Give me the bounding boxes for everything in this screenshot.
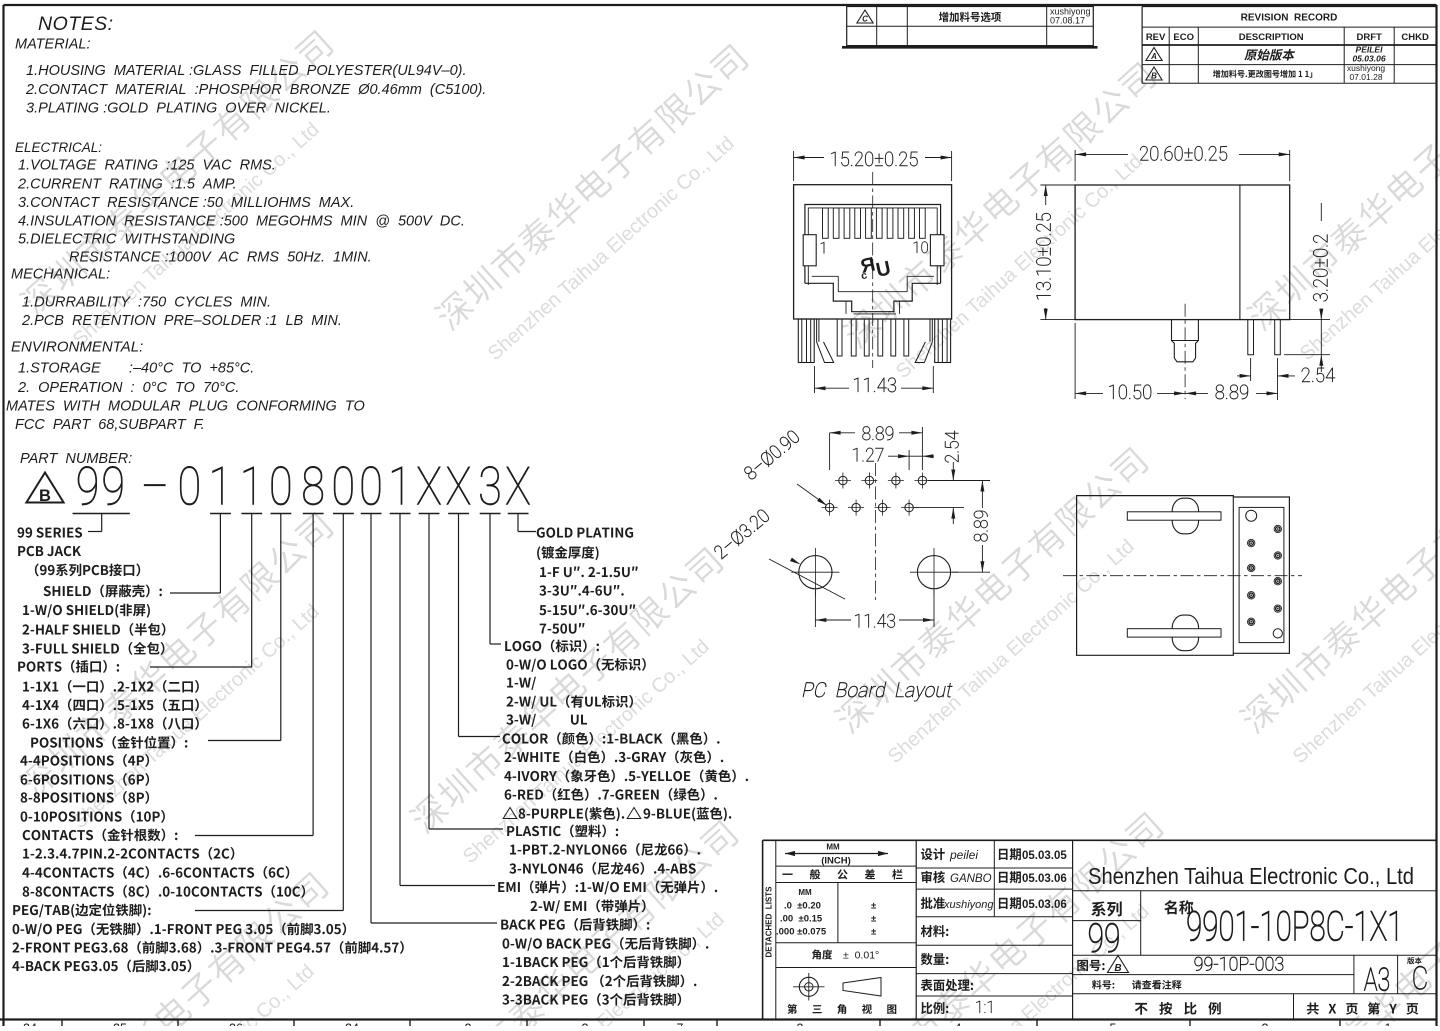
svg-text:2.PCB RETENTION PRE–SOLDER :: 2.PCB RETENTION PRE–SOLDER :1 LB MIN. — [21, 313, 342, 329]
front view body outline — [794, 185, 952, 319]
watermark tiles — [16, 28, 371, 360]
svg-text:MM: MM — [826, 843, 840, 852]
svg-text:DRFT: DRFT — [1357, 32, 1383, 43]
revision row B — [1146, 67, 1162, 80]
pcb leader 8-Ø0.90 — [743, 429, 801, 481]
svg-text:±: ± — [871, 901, 876, 912]
bottom view peg ovals and bars — [1172, 498, 1198, 534]
side view: dimension 20.60±0.25 — [1074, 150, 1076, 181]
detached lists column — [775, 840, 777, 1019]
svg-text:2.CONTACT MATERIAL :PHOSPHOR: 2.CONTACT MATERIAL :PHOSPHOR BRONZE Ø0.4… — [25, 82, 486, 98]
cUL logo — [857, 251, 893, 286]
svg-text:05.03.06: 05.03.06 — [1022, 899, 1067, 911]
svg-text:CHKD: CHKD — [1401, 32, 1429, 43]
svg-text:ENVIRONMENTAL:: ENVIRONMENTAL: — [11, 339, 143, 356]
svg-text:U: U — [874, 257, 893, 282]
side view panel face line — [1239, 185, 1241, 320]
socket contact comb teeth — [823, 208, 829, 238]
title block outer borders — [763, 839, 1437, 841]
side view bottom peg — [1172, 320, 1199, 362]
svg-text:05.03.05: 05.03.05 — [1022, 850, 1067, 862]
svg-text:±: ± — [871, 927, 876, 938]
svg-text:.00 ±0.15: .00 ±0.15 — [780, 914, 823, 925]
svg-text:DETACHED LISTS: DETACHED LISTS — [765, 886, 774, 958]
part number field connector lines — [219, 514, 221, 594]
front view shield legs left — [798, 319, 814, 363]
svg-text:C: C — [862, 15, 868, 24]
title block middle column rows — [993, 840, 995, 917]
front view vertical centerline — [872, 172, 874, 368]
svg-text:3.PLATING :GOLD PLATING OVER: 3.PLATING :GOLD PLATING OVER NICKEL. — [26, 101, 331, 117]
svg-text:1.HOUSING MATERIAL :GLASS FI: 1.HOUSING MATERIAL :GLASS FILLED POLYEST… — [26, 63, 467, 79]
svg-text:MATERIAL:: MATERIAL: — [15, 37, 90, 53]
pcb dimension 1.27 — [908, 450, 910, 470]
svg-text:05.03.06: 05.03.06 — [1352, 54, 1385, 64]
svg-text:07.01.28: 07.01.28 — [1349, 72, 1382, 82]
revision row A — [1146, 48, 1162, 61]
99 SERIES connector — [101, 514, 103, 532]
svg-text:B: B — [1114, 963, 1121, 974]
side view pins — [1248, 320, 1254, 355]
svg-text:B: B — [1151, 72, 1157, 81]
svg-text:RESISTANCE :1000V AC RMS 50: RESISTANCE :1000V AC RMS 50Hz. 1MIN. — [69, 250, 372, 266]
pcb leader 2-Ø3.20 — [713, 508, 771, 560]
side view dimension 3.20±0.2 — [1283, 319, 1330, 321]
front view socket opening — [805, 205, 941, 284]
front view shield legs right — [935, 319, 951, 363]
side view dimensions 10.50 / 8.89 — [1074, 323, 1076, 399]
svg-text:2.CURRENT RATING :1.5 AMP.: 2.CURRENT RATING :1.5 AMP. — [17, 177, 237, 193]
bottom view centerline — [1063, 575, 1302, 577]
svg-text:FCC PART 68,SUBPART F.: FCC PART 68,SUBPART F. — [15, 417, 205, 433]
svg-text:2: 2 — [465, 1022, 472, 1027]
pin number 1 — [821, 242, 824, 253]
svg-text:5.DIELECTRIC WITHSTANDING: 5.DIELECTRIC WITHSTANDING — [18, 232, 235, 248]
svg-text:5: 5 — [1110, 1022, 1117, 1027]
pin number 10 — [914, 241, 928, 253]
drawing number row — [1077, 960, 1104, 971]
svg-text:24: 24 — [23, 1022, 37, 1027]
side view body outline — [1075, 185, 1290, 320]
svg-text:.0 ±0.20: .0 ±0.20 — [784, 901, 821, 912]
pcb layout centerline — [875, 463, 877, 600]
pcb small holes 8-Ø0.90 — [839, 476, 847, 484]
svg-text:REV: REV — [1146, 32, 1166, 43]
svg-text:B: B — [39, 487, 51, 505]
drawing frame border — [4, 4, 1437, 6]
svg-text:Shenzhen Taihua Electronic Co.: Shenzhen Taihua Electronic Co., Ltd — [1088, 863, 1414, 889]
svg-text:.000 ±0.075: .000 ±0.075 — [776, 927, 827, 938]
bottom view pin field rect — [1239, 507, 1284, 642]
revision triangle B next to part number — [26, 473, 63, 503]
front view: dimension 15.20±0.25 — [793, 151, 795, 181]
pcb dimension 8.89 top — [829, 433, 831, 470]
svg-text:±: ± — [871, 914, 876, 925]
socket side latch right — [930, 235, 944, 266]
pcb dimension 11.43 — [814, 590, 816, 627]
series / name cells — [1073, 890, 1437, 892]
pcb big holes 2-Ø3.20 — [799, 556, 832, 589]
svg-text:2. OPERATION : 0°C TO 70°: 2. OPERATION : 0°C TO 70°C. — [17, 380, 239, 396]
svg-text:4: 4 — [955, 1022, 962, 1027]
front view contact pins — [837, 319, 842, 356]
svg-text:2: 2 — [582, 1022, 589, 1027]
socket bottom step profile — [805, 283, 941, 311]
svg-text:1: 1 — [1385, 1022, 1392, 1027]
svg-text:4.INSULATION RESISTANCE :500: 4.INSULATION RESISTANCE :500 MEGOHMS MIN… — [18, 214, 465, 230]
svg-text:DESCRIPTION: DESCRIPTION — [1239, 32, 1304, 43]
big part number 99-01108001XX3X — [78, 466, 97, 505]
svg-text:REVISION RECORD: REVISION RECORD — [1241, 13, 1338, 24]
svg-text:2: 2 — [1262, 1022, 1269, 1027]
A3 / version cells — [1353, 955, 1355, 994]
svg-text:MECHANICAL:: MECHANICAL: — [11, 267, 110, 283]
svg-text:(INCH): (INCH) — [821, 856, 851, 867]
left revision strip table — [847, 7, 1094, 46]
svg-text:peilei: peilei — [949, 848, 978, 862]
left field labels column — [18, 527, 83, 537]
svg-text:NOTES:: NOTES: — [38, 13, 114, 35]
side view dimension 13.10±0.25 — [1040, 184, 1079, 186]
svg-text:7: 7 — [677, 1022, 684, 1027]
pcb dimension 8.89 right — [930, 480, 990, 482]
part number underlines — [73, 513, 130, 515]
third angle projection symbol — [799, 977, 818, 996]
bottom view ringed pins — [1248, 539, 1255, 546]
REVISION RECORD table — [1141, 7, 1143, 84]
svg-text:GANBO: GANBO — [950, 873, 992, 885]
PC Board Layout caption — [802, 682, 954, 702]
tolerance table — [915, 840, 917, 1019]
svg-text:A: A — [1150, 52, 1157, 61]
front view dimension 11.43 — [814, 366, 816, 393]
bottom row of title block — [1293, 994, 1295, 1020]
side view dimension 2.54 — [1250, 358, 1252, 381]
pcb dimension 2.54 vertical — [928, 480, 964, 482]
svg-text:1.STORAGE :–40°C TO +8: 1.STORAGE :–40°C TO +85°C. — [18, 361, 254, 377]
svg-text:3: 3 — [797, 1022, 804, 1027]
svg-text:ELECTRICAL:: ELECTRICAL: — [15, 140, 102, 155]
svg-text:1.DURRABILITY :750 CYCLES M: 1.DURRABILITY :750 CYCLES MIN. — [22, 295, 271, 311]
svg-text:07.08.17: 07.08.17 — [1050, 16, 1085, 26]
svg-text:ECO: ECO — [1173, 32, 1194, 43]
svg-text:xushiyong: xushiyong — [943, 899, 994, 911]
side view peg centerline — [1184, 304, 1186, 399]
svg-text:MM: MM — [798, 888, 812, 897]
bottom view plain holes — [1246, 510, 1257, 521]
svg-text:25: 25 — [113, 1022, 127, 1027]
bottom view body outline — [1077, 496, 1290, 656]
socket side latch left — [803, 235, 816, 266]
svg-text:± 0.01°: ± 0.01° — [843, 950, 879, 962]
svg-text:3.CONTACT RESISTANCE :50 MIL: 3.CONTACT RESISTANCE :50 MILLIOHMS MAX. — [18, 195, 354, 211]
bottom reference grid strip — [61, 1020, 63, 1027]
svg-text:24: 24 — [345, 1022, 359, 1027]
svg-text:MATES WITH MODULAR PLUG CO: MATES WITH MODULAR PLUG CONFORMING TO — [6, 399, 365, 415]
svg-text:05.03.06: 05.03.06 — [1022, 873, 1067, 885]
svg-text:PART NUMBER:: PART NUMBER: — [20, 451, 132, 467]
right field labels column — [537, 527, 633, 537]
svg-text:1.VOLTAGE RATING :125 VAC: 1.VOLTAGE RATING :125 VAC RMS. — [18, 158, 276, 174]
svg-text:26: 26 — [229, 1022, 243, 1027]
